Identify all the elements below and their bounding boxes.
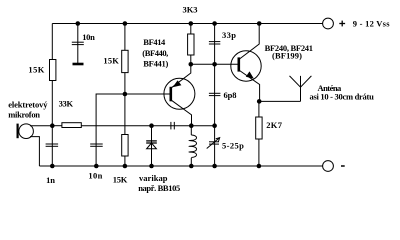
wire base line Q1: [96, 94, 170, 166]
transistor Q2 BF240: [231, 51, 261, 81]
antenna: [300, 76, 302, 102]
svg-text:10n: 10n: [88, 171, 102, 181]
junction top rail Q2 collector: [257, 21, 262, 26]
capacitor C1 1n: [46, 143, 59, 145]
wire 15K divider top: [124, 24, 126, 51]
wire bottom rail: [39, 165, 322, 167]
wire 33K row: [52, 125, 62, 127]
coil L1: [190, 126, 192, 135]
capacitor C2 10n decoupling: [77, 24, 79, 64]
node varikap top: [149, 123, 154, 128]
node 33K mic: [50, 123, 55, 128]
resistor R5 3K3: [190, 24, 192, 35]
node tank top: [189, 123, 194, 128]
wire mic bottom L: [30, 137, 39, 166]
transistor Q1 BF414: [164, 78, 195, 109]
svg-text:asi 10 - 30cm drátu: asi 10 - 30cm drátu: [310, 92, 375, 102]
resistor R6 2K7: [258, 101, 260, 117]
svg-text:33K: 33K: [59, 99, 74, 109]
svg-text:(BF440,: (BF440,: [142, 48, 168, 58]
capacitor C5 33p: [214, 24, 216, 167]
wire divider middle: [124, 73, 126, 135]
junction bottom rail C7: [212, 164, 217, 169]
svg-text:5-25p: 5-25p: [222, 141, 244, 151]
junction top rail C2: [76, 21, 81, 26]
wire emitter node row / antenna feed: [260, 100, 301, 102]
svg-text:15K: 15K: [28, 65, 44, 75]
wire left vertical mid: [51, 81, 53, 167]
svg-text:mikrofon: mikrofon: [8, 110, 40, 120]
wire left vertical upper: [51, 24, 53, 60]
junction bottom rail R6: [257, 164, 262, 169]
junction C5 to Q2 base row: [212, 62, 217, 67]
ground bar: [73, 63, 84, 66]
plus sign: [339, 21, 345, 166]
resistor R3 15K lower divider: [122, 135, 128, 157]
svg-text:např. BB105: např. BB105: [138, 183, 180, 193]
svg-text:2K7: 2K7: [266, 120, 283, 130]
junction top rail R2: [123, 21, 128, 26]
svg-text:varikap: varikap: [139, 173, 168, 183]
wire mic top: [30, 125, 52, 127]
svg-text:15K: 15K: [103, 55, 119, 65]
svg-text:10n: 10n: [82, 32, 95, 42]
microphone MIC electret: [19, 124, 34, 139]
junction bottom rail R3: [123, 164, 128, 169]
capacitor C4 10n coupling: [170, 122, 172, 129]
resistor R1 15K left: [50, 60, 56, 81]
terminal minus: [323, 161, 334, 172]
capacitor C3 10n base: [90, 143, 103, 145]
microphone electrode bar: [17, 124, 19, 139]
svg-text:6p8: 6p8: [224, 90, 237, 100]
junction top rail C5: [212, 21, 217, 26]
svg-text:BF414: BF414: [143, 37, 166, 47]
wire divider bottom: [124, 156, 126, 166]
svg-text:3K3: 3K3: [183, 5, 198, 15]
svg-text:(BF199): (BF199): [272, 51, 302, 61]
junction bottom rail C3: [94, 164, 99, 169]
junction bottom rail C1: [50, 164, 55, 169]
resistor R4 33K: [62, 123, 81, 128]
junction bottom rail L1: [189, 164, 194, 169]
node emitter Q2: [257, 99, 262, 104]
terminal plus: [323, 18, 334, 29]
trimmer C7 5-25p: [209, 141, 219, 143]
resistor R2 15K upper divider: [122, 50, 128, 72]
svg-text:1n: 1n: [46, 175, 55, 185]
wire top rail: [52, 23, 322, 25]
svg-text:BF441): BF441): [143, 59, 168, 69]
node trimmer top: [212, 123, 217, 128]
svg-text:33p: 33p: [222, 30, 236, 40]
node base Q1: [123, 92, 128, 97]
node collector Q1: [189, 62, 194, 67]
minus sign: [341, 165, 345, 167]
junction top rail R5: [189, 21, 194, 26]
junction bottom rail D1: [149, 164, 154, 169]
svg-text:9 - 12 Vss: 9 - 12 Vss: [353, 19, 390, 29]
svg-text:15K: 15K: [113, 175, 128, 185]
wire 33K row to trimmer junction: [81, 125, 214, 127]
svg-text:elektretový: elektretový: [8, 100, 48, 110]
varikap D1 BB105: [151, 126, 153, 166]
capacitor C6 6p8: [209, 92, 221, 94]
wire collector node row: [191, 63, 239, 65]
